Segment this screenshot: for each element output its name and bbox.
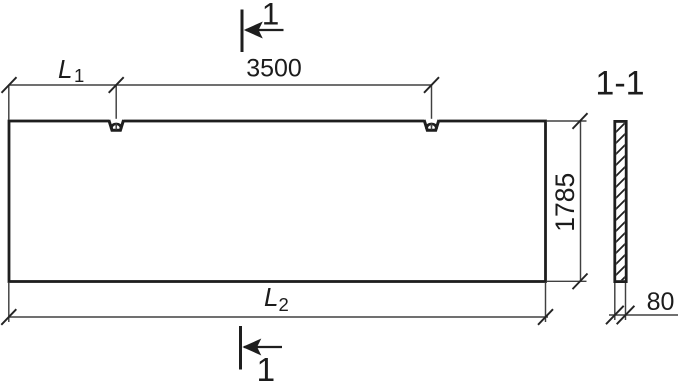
right dimension 1785: extension line top bbox=[547, 120, 587, 122]
notch 2 (lifting recess) bbox=[424, 119, 439, 130]
section marker bottom: arrow shaft bbox=[244, 346, 282, 348]
section thickness dimension 80: extension line right bbox=[625, 283, 627, 320]
svg-text:80: 80 bbox=[647, 288, 675, 316]
tick at notch 1 bbox=[109, 77, 124, 93]
extension line notch 2 bbox=[431, 85, 433, 127]
section thickness dimension 80: dimension line bbox=[609, 314, 678, 316]
svg-text:1785: 1785 bbox=[550, 173, 580, 232]
svg-text:1-1: 1-1 bbox=[595, 65, 644, 103]
right dimension 1785: extension line bottom bbox=[547, 280, 587, 282]
tick at notch 2 bbox=[424, 77, 439, 93]
notch 1 (lifting recess) bbox=[109, 119, 124, 130]
svg-text:1: 1 bbox=[74, 65, 84, 86]
right dimension 1785: tick top bbox=[573, 113, 588, 129]
right dimension 1785: dimension line bbox=[580, 121, 582, 281]
section marker top: arrowhead bbox=[244, 22, 263, 39]
section thickness dimension 80: extension line left bbox=[614, 283, 616, 320]
top dimension line bbox=[9, 84, 432, 86]
section bar outline bbox=[615, 121, 626, 281]
bottom dimension L2: extension line left bbox=[8, 283, 10, 322]
extension line notch 1 bbox=[115, 85, 117, 127]
extension line left bbox=[8, 85, 10, 120]
section marker bottom: cut line bbox=[239, 326, 242, 370]
section marker bottom: arrowhead bbox=[242, 339, 261, 356]
svg-text:L: L bbox=[264, 282, 278, 312]
tick at left end bbox=[2, 77, 17, 93]
section marker top: arrow shaft bbox=[246, 29, 284, 31]
section marker top: cut line bbox=[241, 10, 244, 53]
svg-text:1: 1 bbox=[262, 0, 280, 31]
section thickness dimension 80: tick left bbox=[606, 306, 624, 324]
section thickness dimension 80: tick right bbox=[617, 306, 635, 324]
bottom dimension L2: tick left bbox=[1, 309, 16, 325]
bottom dimension L2: dimension line bbox=[9, 316, 548, 318]
panel outline bbox=[9, 121, 546, 282]
svg-text:1: 1 bbox=[256, 352, 275, 382]
right dimension 1785: tick bottom bbox=[573, 274, 588, 290]
bottom dimension L2: extension line right bbox=[545, 283, 547, 322]
svg-text:L: L bbox=[58, 54, 72, 84]
svg-text:3500: 3500 bbox=[246, 55, 302, 83]
section bar hatching bbox=[611, 106, 631, 291]
bottom dimension L2: tick right bbox=[538, 309, 553, 325]
svg-text:2: 2 bbox=[279, 294, 289, 315]
